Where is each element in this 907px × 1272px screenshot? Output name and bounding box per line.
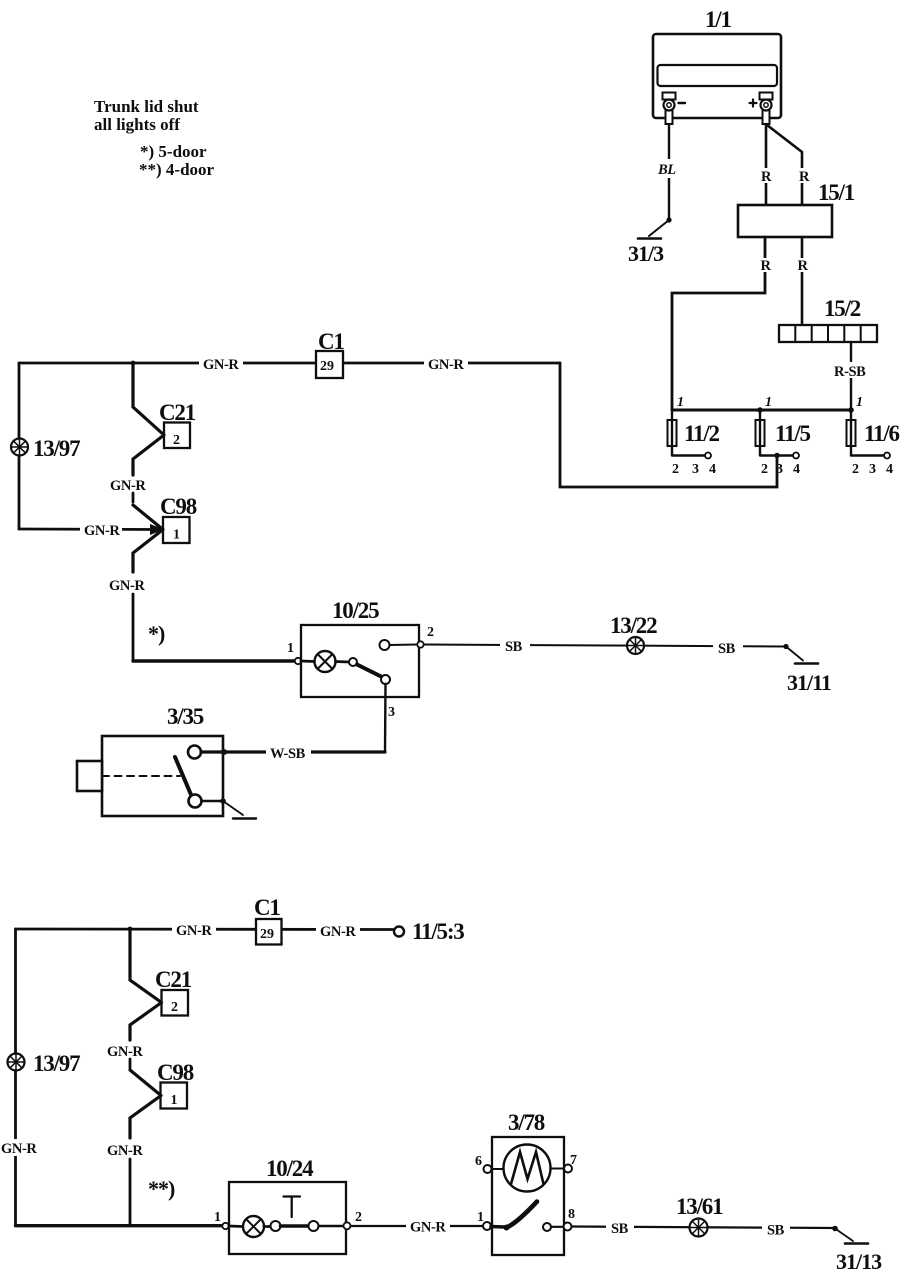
wire into 10/25 pin 1 bbox=[133, 659, 295, 662]
svg-text:GN-R: GN-R bbox=[320, 924, 356, 940]
wire GN-R top feed bbox=[19, 362, 560, 365]
ground 31/11 bbox=[783, 644, 831, 695]
svg-text:1: 1 bbox=[677, 395, 684, 410]
svg-text:GN-R: GN-R bbox=[107, 1044, 143, 1060]
svg-text:GN-R: GN-R bbox=[1, 1141, 37, 1157]
svg-text:GN-R: GN-R bbox=[107, 1143, 143, 1159]
wire branch to C21 bbox=[133, 363, 164, 435]
svg-text:4: 4 bbox=[886, 462, 893, 477]
fuse 11/5 bbox=[756, 395, 811, 477]
wire SB from 3/78 pin 8 bbox=[572, 1227, 836, 1229]
svg-text:8: 8 bbox=[568, 1207, 575, 1222]
svg-text:31/13: 31/13 bbox=[836, 1249, 882, 1272]
svg-text:1: 1 bbox=[214, 1210, 221, 1225]
battery positive terminal bbox=[750, 93, 773, 125]
battery negative terminal bbox=[663, 93, 686, 125]
svg-text:10/24: 10/24 bbox=[266, 1156, 314, 1181]
svg-text:2: 2 bbox=[173, 433, 180, 448]
svg-text:SB: SB bbox=[505, 639, 523, 655]
svg-text:C98: C98 bbox=[157, 1060, 194, 1085]
svg-text:3: 3 bbox=[388, 705, 395, 720]
connector C1 pin 29 (bottom) bbox=[254, 895, 282, 945]
motor unit 3/78 bbox=[492, 1110, 564, 1255]
switch 3/35 body bbox=[77, 704, 223, 816]
wire left branch vertical (bottom) bbox=[14, 929, 17, 1226]
thermal symbol T inside 10/24 bbox=[284, 1197, 301, 1218]
wire GN-R bottom feed bbox=[16, 928, 394, 931]
svg-text:31/11: 31/11 bbox=[787, 670, 831, 695]
header note text bbox=[94, 97, 215, 179]
motor M symbol bbox=[504, 1145, 551, 1192]
svg-text:2: 2 bbox=[427, 625, 434, 640]
lamp unit 10/24 bbox=[229, 1156, 346, 1254]
wire GN-R to 3/78 bbox=[351, 1225, 484, 1227]
svg-text:3/35: 3/35 bbox=[167, 704, 204, 729]
svg-text:13/61: 13/61 bbox=[676, 1194, 723, 1219]
svg-text:C1: C1 bbox=[318, 329, 344, 354]
wire SB from 10/25 pin 2 bbox=[424, 645, 786, 647]
wire BL from battery minus bbox=[668, 124, 670, 219]
bulb 13/97 (top) bbox=[11, 436, 80, 461]
wire GN-R into C98 bbox=[19, 528, 156, 531]
svg-text:W-SB: W-SB bbox=[270, 746, 306, 762]
switch contact inside 3/78 bbox=[491, 1202, 564, 1232]
svg-text:1: 1 bbox=[171, 1093, 178, 1108]
wire into C98 (bottom) bbox=[130, 1070, 161, 1096]
pin 7 of 3/78 bbox=[551, 1153, 578, 1173]
svg-text:GN-R: GN-R bbox=[176, 923, 212, 939]
svg-text:3: 3 bbox=[869, 462, 876, 477]
svg-text:**): **) bbox=[148, 1176, 175, 1201]
connector C1 pin 29 (top) bbox=[316, 329, 344, 378]
connector C98 pin 1 (bottom) bbox=[157, 1060, 194, 1109]
ground at 3/35 bbox=[202, 798, 257, 818]
wire 11/5 pin3 to GN-R feed bbox=[560, 363, 777, 487]
connector C21 pin 2 (bottom) bbox=[155, 967, 192, 1016]
wire label GN-R left bottom bbox=[0, 1139, 40, 1156]
svg-text:11/5: 11/5 bbox=[775, 421, 811, 446]
lamp inside 10/25 bbox=[301, 651, 349, 672]
svg-text:4: 4 bbox=[793, 462, 800, 477]
switch contact 10/25 bbox=[349, 658, 390, 684]
fuse box 15/2 bbox=[779, 296, 877, 342]
svg-text:R: R bbox=[799, 169, 810, 185]
wire into C98 bbox=[133, 505, 163, 530]
svg-text:3/78: 3/78 bbox=[508, 1110, 545, 1135]
wire branch to C21 (bottom) bbox=[130, 929, 162, 1003]
bus wire to 10/24 bbox=[16, 1224, 223, 1227]
wire R-SB from 15/2 bbox=[850, 342, 852, 410]
svg-text:GN-R: GN-R bbox=[110, 478, 146, 494]
svg-text:C21: C21 bbox=[159, 400, 196, 425]
svg-text:31/3: 31/3 bbox=[628, 241, 664, 266]
lamp inside 10/24 bbox=[229, 1216, 271, 1237]
svg-text:6: 6 bbox=[475, 1154, 482, 1169]
switch unit 10/25 bbox=[287, 598, 419, 697]
svg-text:GN-R: GN-R bbox=[203, 357, 239, 373]
wire 10/25 pin 3 down bbox=[384, 684, 387, 752]
svg-text:C21: C21 bbox=[155, 967, 192, 992]
contacts inside 10/24 bbox=[271, 1221, 344, 1231]
svg-text:13/97: 13/97 bbox=[33, 436, 80, 461]
svg-text:11/5:3: 11/5:3 bbox=[412, 919, 464, 944]
svg-text:C1: C1 bbox=[254, 895, 280, 920]
fuse supply bus wire bbox=[672, 409, 851, 412]
svg-text:1: 1 bbox=[856, 395, 863, 410]
svg-text:R-SB: R-SB bbox=[834, 364, 866, 380]
svg-text:R: R bbox=[798, 258, 809, 274]
relay 15/1 bbox=[738, 205, 832, 237]
svg-text:SB: SB bbox=[718, 641, 736, 657]
wire C98 down (bottom) bbox=[130, 1096, 161, 1139]
svg-text:R: R bbox=[761, 258, 772, 274]
pin 2 contact 10/25 bbox=[380, 625, 435, 650]
svg-text:2: 2 bbox=[171, 1000, 178, 1015]
svg-text:SB: SB bbox=[767, 1223, 785, 1239]
svg-text:1: 1 bbox=[173, 528, 180, 543]
svg-text:SB: SB bbox=[611, 1221, 629, 1237]
bulb 13/97 (bottom) bbox=[8, 1051, 81, 1076]
svg-text:13/22: 13/22 bbox=[610, 613, 657, 638]
wire R from 15/1 left output bbox=[672, 237, 765, 410]
svg-text:4: 4 bbox=[709, 462, 716, 477]
wire C21 down (bottom) bbox=[130, 1003, 162, 1041]
connector C21 pin 2 (top) bbox=[159, 400, 196, 448]
wire R battery plus to 15/1 bbox=[765, 124, 768, 205]
svg-text:Trunk lid shut: Trunk lid shut bbox=[94, 97, 199, 116]
pin 1 of 3/78 bbox=[477, 1210, 491, 1230]
svg-text:GN-R: GN-R bbox=[410, 1220, 446, 1236]
terminal 11/5:3 bbox=[394, 919, 464, 944]
svg-text:GN-R: GN-R bbox=[109, 578, 145, 594]
svg-text:11/2: 11/2 bbox=[684, 421, 720, 446]
svg-text:1: 1 bbox=[477, 1210, 484, 1225]
node junction 11/6 pin1 bbox=[848, 407, 854, 413]
wire C21 to GN-R bbox=[133, 435, 164, 475]
battery B1 body bbox=[653, 34, 781, 118]
svg-text:2: 2 bbox=[672, 462, 679, 477]
wire W-SB from 3/35 to 10/25 pin3 bbox=[201, 750, 385, 753]
svg-text:13/97: 13/97 bbox=[33, 1051, 80, 1076]
fuse 11/2 bbox=[668, 395, 720, 477]
svg-text:*): *) bbox=[148, 621, 165, 646]
svg-text:C98: C98 bbox=[160, 494, 197, 519]
svg-text:1/1: 1/1 bbox=[705, 7, 731, 32]
connector C98 pin 1 (top) bbox=[160, 494, 197, 543]
svg-text:BL: BL bbox=[657, 162, 676, 178]
bulb 13/22 bbox=[610, 613, 657, 654]
svg-text:10/25: 10/25 bbox=[332, 598, 379, 623]
svg-text:2: 2 bbox=[355, 1210, 362, 1225]
svg-text:GN-R: GN-R bbox=[428, 357, 464, 373]
svg-text:3: 3 bbox=[692, 462, 699, 477]
svg-text:1: 1 bbox=[287, 641, 294, 656]
pin 6 of 3/78 bbox=[475, 1154, 504, 1173]
svg-text:**) 4-door: **) 4-door bbox=[139, 160, 215, 179]
node junction 11/5 pin1 bbox=[757, 407, 763, 413]
svg-text:1: 1 bbox=[765, 395, 772, 410]
svg-text:*) 5-door: *) 5-door bbox=[140, 142, 207, 161]
svg-text:all lights off: all lights off bbox=[94, 115, 180, 134]
wire R diagonal battery plus to 15/1 bbox=[767, 125, 802, 205]
svg-text:15/2: 15/2 bbox=[824, 296, 861, 321]
pin 8 of 3/78 bbox=[564, 1207, 576, 1231]
switch 3/35 contacts bbox=[175, 746, 202, 808]
ground 31/13 bbox=[832, 1226, 882, 1272]
ground 31/3 bbox=[628, 217, 672, 266]
svg-text:2: 2 bbox=[761, 462, 768, 477]
svg-text:11/6: 11/6 bbox=[864, 421, 900, 446]
fuse 11/6 bbox=[847, 395, 900, 477]
wire C98 down bbox=[133, 530, 163, 573]
svg-text:15/1: 15/1 bbox=[818, 180, 855, 205]
svg-text:R: R bbox=[761, 169, 772, 185]
pin 2 of 10/24 bbox=[344, 1210, 363, 1229]
wire left branch vertical bbox=[18, 363, 21, 529]
svg-text:GN-R: GN-R bbox=[84, 523, 120, 539]
svg-text:29: 29 bbox=[260, 927, 274, 942]
bulb 13/61 bbox=[676, 1194, 723, 1237]
svg-text:29: 29 bbox=[320, 359, 334, 374]
wire R from 15/1 right output to 15/2 bbox=[801, 237, 804, 325]
svg-text:7: 7 bbox=[570, 1153, 577, 1168]
svg-text:2: 2 bbox=[852, 462, 859, 477]
